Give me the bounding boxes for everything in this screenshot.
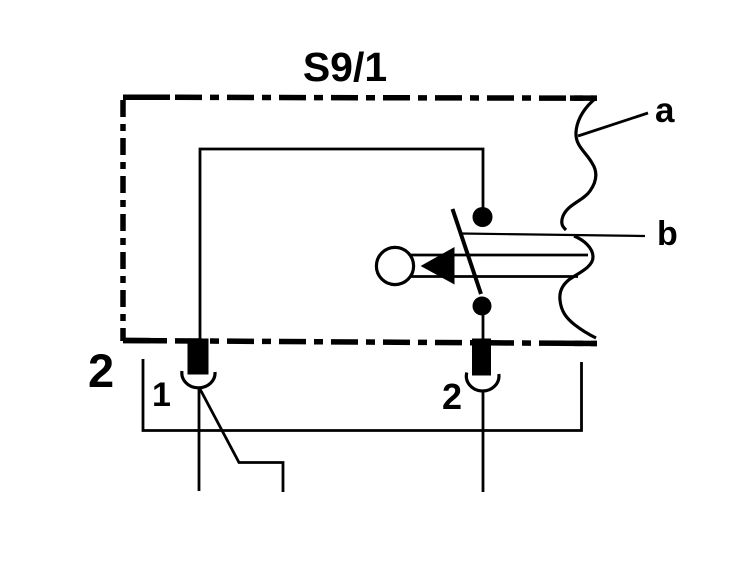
svg-text:a: a [655, 91, 675, 130]
svg-text:1: 1 [152, 376, 171, 414]
actuator knob [376, 247, 413, 284]
leader line to label a [578, 113, 648, 136]
wire from pin 2 down [482, 390, 485, 492]
svg-text:2: 2 [442, 376, 462, 417]
svg-text:b: b [657, 215, 678, 253]
pin 2 (terminal post) [472, 339, 491, 376]
bracket wire (connector body outline below box) [143, 359, 582, 431]
node: lower contact dot [473, 297, 492, 316]
wire: lower contact to pin 2 [482, 310, 485, 347]
wire: inner loop from pin 1 up and over to upper contact [200, 149, 483, 345]
pin 2 socket arc [466, 373, 499, 392]
wire from pin 1 down [198, 389, 201, 491]
leader line to label b (upper guide line) [461, 234, 645, 237]
actuator shaft (two parallel lines) [410, 254, 588, 257]
component boundary S9/1 (dash-dot box) [123, 97, 597, 343]
node: upper contact dot [473, 207, 493, 227]
housing break line (lower torn edge) [560, 236, 596, 338]
pin 1 socket arc [182, 371, 215, 388]
actuator arrow [421, 247, 455, 285]
wire stub from pin 1 (diagonal lead) [200, 389, 283, 492]
switch lever [453, 209, 482, 294]
pin 1 (terminal post) [188, 339, 209, 375]
svg-text:S9/1: S9/1 [303, 44, 387, 90]
housing break line (upper torn edge) [562, 98, 596, 230]
svg-text:2: 2 [88, 344, 114, 397]
